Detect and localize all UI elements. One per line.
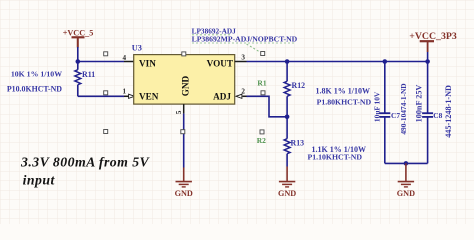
svg-text:100nF 25V: 100nF 25V [415, 85, 424, 123]
svg-text:10K 1% 1/10W: 10K 1% 1/10W [11, 70, 62, 79]
capacitor C8 [422, 62, 443, 164]
pin 1 [124, 95, 129, 97]
svg-text:490-10474-1-ND: 490-10474-1-ND [399, 83, 408, 134]
node C7 tap [383, 59, 388, 64]
wire to VEN [78, 95, 124, 97]
svg-text:+VCC_5: +VCC_5 [63, 28, 94, 37]
svg-text:GND: GND [278, 189, 296, 198]
node VIN junction [76, 59, 81, 64]
svg-text:GND: GND [175, 189, 193, 198]
svg-text:10uF 10V: 10uF 10V [372, 91, 381, 122]
capacitor C7 [379, 62, 400, 164]
resistor R11 [75, 62, 95, 97]
svg-text:VIN: VIN [139, 58, 156, 68]
ground right [397, 163, 415, 198]
svg-text:3.3V 800mA from 5V: 3.3V 800mA from 5V [20, 154, 151, 169]
node GND tap [404, 161, 409, 166]
pin 3 [235, 61, 247, 63]
svg-text:U3: U3 [132, 44, 142, 53]
wire bottom rail [385, 162, 428, 164]
ground middle [278, 167, 296, 199]
resistor R13 [284, 117, 304, 167]
selection handles [104, 52, 265, 134]
wire pin5 to GND [183, 114, 185, 168]
pin 5 [183, 104, 185, 114]
svg-text:R2: R2 [257, 136, 266, 145]
svg-text:GND: GND [397, 189, 415, 198]
wire VCC_5 stem [77, 47, 79, 62]
svg-text:2: 2 [241, 87, 245, 95]
svg-text:VOUT: VOUT [207, 58, 233, 68]
svg-text:R12: R12 [292, 81, 306, 90]
wire 3P3 stem [427, 52, 429, 62]
node R12 tap [285, 59, 290, 64]
resistor R12 [284, 62, 305, 117]
svg-text:4: 4 [123, 54, 127, 62]
wire to VIN [78, 61, 124, 63]
voltage regulator U3 [132, 44, 235, 105]
node ADJ junction [285, 115, 290, 120]
ground left [175, 168, 193, 199]
note text [20, 154, 151, 187]
node VCC_3P3 junction [425, 59, 430, 64]
svg-text:R11: R11 [82, 70, 95, 79]
svg-text:P1.80KHCT-ND: P1.80KHCT-ND [317, 98, 372, 107]
part labels LP38692 [192, 26, 298, 51]
power port +VCC_3P3 [409, 31, 457, 52]
svg-text:R13: R13 [291, 139, 305, 148]
svg-text:P1.10KHCT-ND: P1.10KHCT-ND [308, 153, 363, 162]
svg-text:R1: R1 [257, 79, 266, 88]
power port +VCC_5 [63, 28, 94, 47]
svg-text:LP38692MP-ADJ/NOPBCT-ND: LP38692MP-ADJ/NOPBCT-ND [192, 34, 298, 43]
pin 2 [236, 94, 242, 98]
svg-text:ADJ: ADJ [213, 92, 231, 102]
svg-text:1: 1 [123, 87, 127, 95]
svg-text:VEN: VEN [139, 92, 159, 102]
svg-text:445-1248-1-ND: 445-1248-1-ND [444, 85, 453, 138]
svg-text:1.8K 1% 1/10W: 1.8K 1% 1/10W [316, 86, 370, 95]
svg-text:P10.0KHCT-ND: P10.0KHCT-ND [7, 85, 62, 94]
svg-text:GND: GND [180, 75, 190, 96]
svg-text:C8: C8 [433, 111, 442, 120]
wire ADJ [247, 96, 288, 117]
svg-text:5: 5 [175, 110, 183, 114]
svg-text:input: input [23, 173, 56, 188]
svg-text:3: 3 [241, 53, 245, 61]
wire VOUT rail [247, 61, 428, 63]
pin 4 [124, 61, 134, 63]
